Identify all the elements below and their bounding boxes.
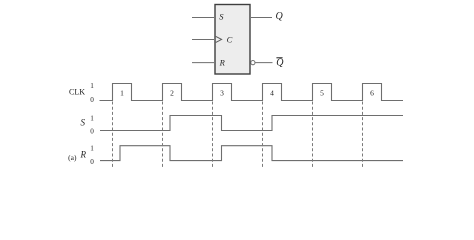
svg-text:3: 3 <box>220 88 224 97</box>
svg-text:Q: Q <box>276 11 284 22</box>
svg-text:1: 1 <box>90 82 94 90</box>
svg-text:R: R <box>80 150 87 160</box>
svg-text:5: 5 <box>320 88 324 97</box>
svg-text:1: 1 <box>120 88 124 97</box>
svg-text:0: 0 <box>90 96 94 104</box>
svg-text:1: 1 <box>90 114 94 122</box>
svg-text:S: S <box>81 118 86 128</box>
svg-text:Q: Q <box>276 58 284 69</box>
svg-text:0: 0 <box>90 128 94 136</box>
svg-text:R: R <box>219 58 226 68</box>
svg-text:CLK: CLK <box>69 88 85 97</box>
svg-text:(a): (a) <box>68 153 77 162</box>
svg-text:S: S <box>219 11 224 21</box>
svg-text:0: 0 <box>90 158 94 166</box>
svg-text:1: 1 <box>90 145 94 153</box>
svg-text:2: 2 <box>170 88 174 97</box>
svg-text:4: 4 <box>270 88 274 97</box>
svg-text:C: C <box>227 35 233 45</box>
svg-text:6: 6 <box>370 88 374 97</box>
